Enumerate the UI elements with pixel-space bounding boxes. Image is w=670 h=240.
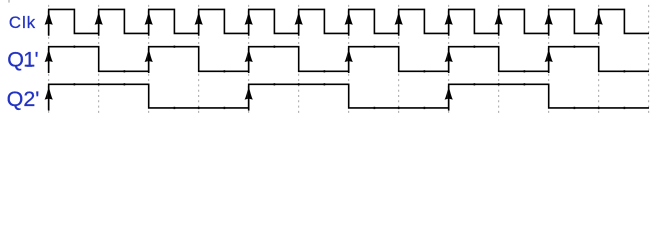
gridline t6 — [348, 2, 350, 113]
gridline t9 — [498, 2, 500, 113]
Q1' rising-edge arrow 2 — [145, 48, 153, 73]
Q1' rising-edge arrow 6 — [545, 48, 553, 73]
gridline t12 — [648, 2, 650, 113]
Clk rising-edge arrow 10 — [495, 10, 503, 35]
Clk rising-edge arrow 3 — [145, 10, 153, 35]
Clk rising-edge arrow 6 — [295, 10, 303, 35]
gridline t11 — [598, 2, 600, 113]
Clk rising-edge arrow 2 — [95, 10, 103, 35]
gridline t1 — [98, 2, 100, 113]
Q1' rising-edge arrow 5 — [445, 48, 453, 73]
svg-text:Q2': Q2' — [7, 87, 40, 111]
Q2' rising-edge arrow 2 — [245, 85, 253, 110]
waveform Q2' — [49, 84, 649, 109]
gridline t5 — [298, 2, 300, 113]
Clk rising-edge arrow 11 — [545, 10, 553, 35]
Clk rising-edge arrow 1 — [45, 10, 53, 35]
Q1 line joint nubs — [74, 46, 626, 73]
svg-text:Clk: Clk — [9, 13, 36, 32]
Q1' rising-edge arrow 3 — [245, 48, 253, 73]
Q2 line joint nubs — [74, 83, 626, 109]
gridline t3 — [198, 2, 200, 113]
Q2' rising-edge arrow 3 — [445, 85, 453, 110]
Clk rising-edge arrow 4 — [195, 10, 203, 35]
gridline t10 — [548, 2, 550, 113]
gridline t8 — [448, 2, 450, 113]
Clk rising-edge arrow 12 — [595, 10, 603, 35]
gridline t4 — [248, 2, 250, 113]
gridline t2 — [148, 2, 150, 113]
Clk rising-edge arrow 7 — [345, 10, 353, 35]
Q1' rising-edge arrow 4 — [345, 48, 353, 73]
grid fragment top-left — [8, 0, 10, 3]
waveform Clk — [49, 9, 649, 35]
Q1' rising-edge arrow 1 — [45, 48, 53, 73]
Clk rising-edge arrow 8 — [395, 10, 403, 35]
gridline t7 — [398, 2, 400, 113]
Clk rising-edge arrow 9 — [445, 10, 453, 35]
serif foot of digit 1 in Q1' — [27, 66, 33, 67]
Clk rising-edge arrow 5 — [245, 10, 253, 35]
gridline t0 — [48, 2, 50, 113]
svg-text:Q1': Q1' — [7, 48, 38, 72]
waveform Q1' — [49, 47, 649, 73]
Q2' rising-edge arrow 1 — [45, 85, 53, 110]
